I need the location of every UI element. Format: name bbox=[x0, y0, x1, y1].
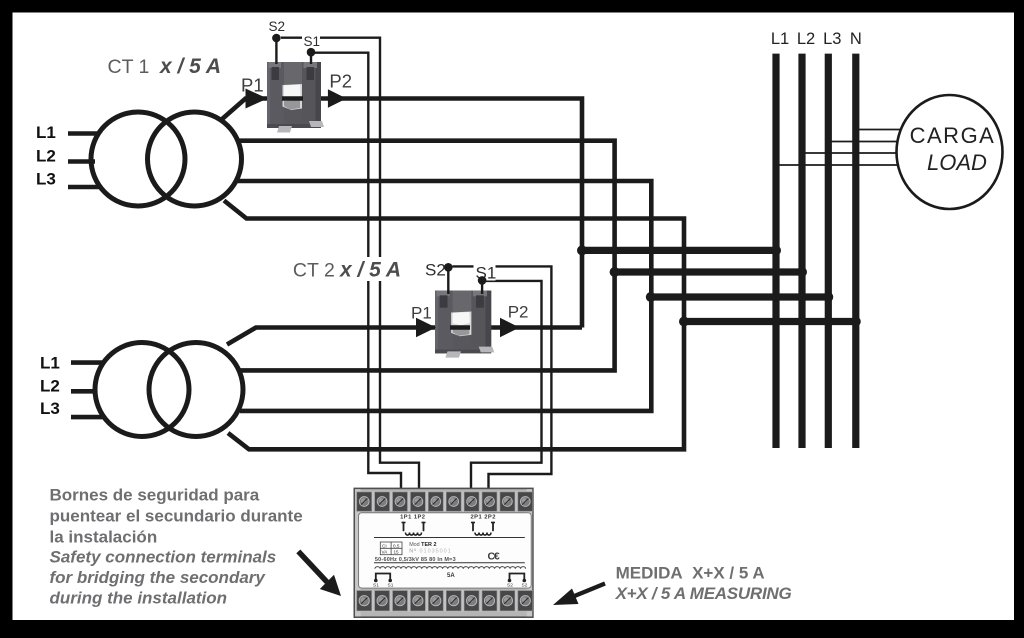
label T2 L3 bbox=[40, 399, 60, 418]
svg-text:P2: P2 bbox=[508, 303, 529, 322]
wire L2 to load bbox=[802, 152, 896, 154]
label TER ratings table bbox=[380, 542, 402, 555]
wire T1 L1 input stub bbox=[68, 131, 100, 136]
symbol TER secondary winding wavy line bbox=[375, 567, 526, 569]
wire T1 L3 input stub bbox=[68, 185, 101, 190]
bus bar L3 bbox=[825, 54, 832, 448]
svg-text:L1: L1 bbox=[36, 123, 56, 142]
wire L2 phase: T1 right, down at x=614.6, left to T2 bbox=[236, 141, 615, 371]
label CT1 P1 bbox=[241, 75, 264, 96]
current transformer CT1 bbox=[267, 62, 324, 133]
svg-text:L3: L3 bbox=[36, 170, 56, 189]
label TER S1 S1 bbox=[373, 582, 394, 588]
wire tap L2 feeder bbox=[615, 268, 802, 275]
svg-text:L2: L2 bbox=[797, 30, 815, 48]
node L1 bus junction bbox=[771, 245, 781, 255]
node L2 bus junction bbox=[797, 267, 807, 277]
wire tap N feeder bbox=[684, 318, 856, 325]
svg-text:during the installation: during the installation bbox=[50, 589, 228, 608]
symbol TER bridge S1 bbox=[374, 574, 392, 583]
svg-text:x / 5 A: x / 5 A bbox=[339, 259, 401, 282]
arrow P1 of CT1 bbox=[246, 89, 268, 109]
wire CT1 S1 to terminal 1P1 bbox=[311, 52, 401, 501]
arrow P2 of CT1 bbox=[328, 89, 347, 108]
transformer T2 bbox=[95, 343, 243, 437]
svg-text:X+X / 5 A MEASURING: X+X / 5 A MEASURING bbox=[615, 584, 792, 603]
terminal block TER measuring unit bbox=[354, 488, 533, 617]
label CT2 P2 bbox=[508, 303, 529, 322]
label TER serial bbox=[409, 548, 451, 555]
wire L3 to load bbox=[828, 141, 897, 143]
label TER S2 S2 bbox=[507, 582, 528, 588]
svg-text:LOAD: LOAD bbox=[927, 150, 987, 175]
svg-text:Safety connection terminals: Safety connection terminals bbox=[50, 548, 277, 567]
wire tap L1 feeder bbox=[582, 247, 776, 254]
svg-text:P1: P1 bbox=[411, 304, 432, 323]
label T2 L1 bbox=[40, 353, 60, 372]
svg-text:Nº 01035001: Nº 01035001 bbox=[409, 548, 451, 555]
svg-text:C€: C€ bbox=[488, 551, 500, 563]
bus bar N bbox=[852, 54, 859, 448]
bus bar L1 bbox=[772, 54, 779, 448]
node B junction L2 riser bbox=[610, 267, 620, 277]
svg-text:L3: L3 bbox=[40, 399, 60, 418]
wire N to load bbox=[856, 129, 901, 131]
label CT2 P1 bbox=[411, 304, 432, 323]
label MEDIDA bbox=[615, 564, 792, 604]
label T1 L3 bbox=[36, 170, 56, 189]
svg-text:5A: 5A bbox=[447, 573, 455, 579]
svg-text:S1: S1 bbox=[304, 34, 321, 49]
label safety note ES/EN bbox=[50, 486, 303, 608]
symbol TER bridge S2 bbox=[508, 574, 526, 583]
svg-text:S2: S2 bbox=[425, 261, 446, 280]
node N bus junction bbox=[851, 317, 861, 327]
wire tap L3 feeder bbox=[651, 293, 829, 300]
svg-text:CT 1: CT 1 bbox=[108, 56, 150, 78]
wire T1 L2 input stub bbox=[68, 159, 95, 164]
label TER 2P1 2P2 bbox=[471, 515, 496, 521]
svg-text:L2: L2 bbox=[36, 146, 56, 165]
label CT2 S1 bbox=[474, 261, 497, 283]
svg-text:L2: L2 bbox=[40, 376, 60, 395]
wire N neutral: T1 right, down at x=684, left to T2 bbox=[224, 201, 684, 450]
arrow annotation to TER right bbox=[553, 584, 605, 606]
wire CT2 S2 to terminal 2P2 bbox=[448, 266, 551, 501]
wire L1 phase: T1 to CT1 to vertical riser x=582 down to CT2 line bbox=[221, 99, 582, 328]
label bus L1 bbox=[771, 30, 789, 48]
wire T2 L1 input stub bbox=[71, 360, 103, 365]
svg-text:P2: P2 bbox=[329, 70, 352, 91]
separator line TER lower bbox=[374, 562, 525, 564]
svg-text:N: N bbox=[850, 30, 862, 48]
svg-text:CI: CI bbox=[382, 543, 387, 548]
label CT1 S1 bbox=[302, 32, 320, 50]
label T1 L1 bbox=[36, 123, 56, 142]
separator line TER upper bbox=[374, 537, 525, 539]
label T2 L2 bbox=[40, 376, 60, 395]
svg-text:P1: P1 bbox=[241, 75, 264, 96]
current transformer CT2 bbox=[435, 291, 494, 358]
wire L1 phase: CT2 line back to transformer T2 bbox=[227, 328, 582, 345]
node L3 bus junction bbox=[823, 292, 833, 302]
svg-text:puentear el secundario durante: puentear el secundario durante bbox=[50, 507, 303, 526]
label TER model bbox=[409, 542, 436, 548]
arrow P1 of CT2 bbox=[416, 318, 436, 337]
node CT2 S1 bbox=[478, 276, 487, 285]
wire through CT1 window bbox=[282, 96, 303, 101]
label TER ratings line bbox=[375, 557, 456, 563]
transformer T1 bbox=[91, 112, 242, 206]
node CT1 S2 bbox=[272, 34, 281, 43]
wire L1 to load bbox=[776, 164, 898, 166]
arrow annotation to TER left bbox=[298, 551, 341, 596]
node CT1 S1 bbox=[307, 48, 316, 57]
svg-text:L3: L3 bbox=[823, 30, 841, 48]
node CT2 S2 bbox=[444, 263, 453, 272]
node C junction L3 riser bbox=[646, 292, 656, 302]
label CT2 S2 bbox=[425, 261, 446, 280]
label bus L2 bbox=[797, 30, 815, 48]
label CT2 title bbox=[290, 257, 404, 282]
arrow P2 of CT2 bbox=[500, 318, 520, 337]
wire L3 phase: T1 right, down at x=651.3, left to T2 bbox=[237, 181, 651, 411]
svg-text:for bridging the secondary: for bridging the secondary bbox=[50, 568, 267, 587]
label T1 L2 bbox=[36, 146, 56, 165]
wire T2 L2 input stub bbox=[71, 389, 96, 394]
svg-text:MEDIDA X+X / 5 A: MEDIDA X+X / 5 A bbox=[616, 564, 765, 583]
svg-text:CT 2: CT 2 bbox=[293, 260, 335, 282]
node D junction N riser bbox=[679, 317, 689, 327]
label TER 5A bbox=[447, 573, 455, 579]
svg-text:2P1 2P2: 2P1 2P2 bbox=[471, 515, 496, 521]
svg-text:S1: S1 bbox=[388, 582, 394, 588]
symbol TER CT coil 1 bbox=[402, 523, 426, 536]
svg-text:x / 5 A: x / 5 A bbox=[159, 55, 221, 78]
svg-text:S2: S2 bbox=[269, 19, 286, 34]
logo CE bbox=[488, 551, 500, 563]
node A junction L1 riser bbox=[577, 245, 587, 255]
load M1 CARGA/LOAD bbox=[897, 95, 1003, 209]
label CT1 P2 bbox=[329, 70, 352, 91]
label bus N bbox=[850, 30, 862, 48]
wire through CT2 window bbox=[450, 325, 470, 330]
label bus L3 bbox=[823, 30, 841, 48]
svg-text:S1: S1 bbox=[373, 582, 379, 588]
symbol TER CT coil 2 bbox=[471, 523, 495, 536]
svg-text:S2: S2 bbox=[522, 582, 528, 588]
svg-text:Mod TER 2: Mod TER 2 bbox=[409, 542, 436, 548]
bus bar L2 bbox=[798, 54, 805, 448]
svg-text:L1: L1 bbox=[40, 353, 60, 372]
svg-text:la instalación: la instalación bbox=[50, 528, 158, 547]
wire CT1 S2 to terminal 1P2 bbox=[276, 38, 419, 501]
label CT1 S2 bbox=[269, 19, 286, 34]
svg-text:50-60Hz 0,5/3kV 85 80 In M=3: 50-60Hz 0,5/3kV 85 80 In M=3 bbox=[375, 557, 456, 563]
svg-text:0,5: 0,5 bbox=[393, 543, 400, 548]
svg-text:VA: VA bbox=[382, 550, 389, 555]
label CT1 title bbox=[108, 55, 222, 78]
svg-text:Bornes de seguridad para: Bornes de seguridad para bbox=[50, 486, 260, 505]
wire T2 L3 input stub bbox=[71, 415, 104, 420]
wire CT2 S1 to terminal 2P1 bbox=[471, 280, 542, 501]
svg-text:1P1 1P2: 1P1 1P2 bbox=[400, 515, 425, 521]
svg-text:CARGA: CARGA bbox=[910, 123, 996, 148]
label TER 1P1 1P2 bbox=[400, 515, 425, 521]
svg-text:15: 15 bbox=[394, 550, 400, 555]
svg-text:L1: L1 bbox=[771, 30, 789, 48]
svg-text:S2: S2 bbox=[507, 582, 513, 588]
